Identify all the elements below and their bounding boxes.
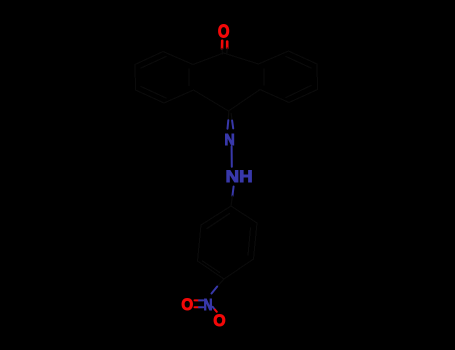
carbonyl C9=O double bond (red O-half, dark C-half) bbox=[222, 41, 227, 54]
svg-text:NH: NH bbox=[226, 167, 253, 186]
C-NO2 bond bbox=[212, 279, 225, 294]
C10=N hydrazone double bond bbox=[228, 112, 234, 129]
nitro N=O double bond bbox=[195, 300, 204, 307]
N-phenyl bond bbox=[231, 187, 234, 207]
svg-text:O: O bbox=[218, 21, 230, 41]
N-N bond bbox=[231, 147, 233, 167]
svg-text:N: N bbox=[225, 132, 235, 149]
svg-text:N: N bbox=[204, 297, 213, 314]
nitro N-O single bond bbox=[213, 307, 217, 312]
phenyl ring bbox=[198, 206, 258, 279]
svg-text:O: O bbox=[213, 311, 225, 330]
right benzo ring bbox=[259, 51, 318, 103]
left benzo ring bbox=[135, 52, 194, 104]
svg-text:O: O bbox=[181, 295, 193, 314]
anthracenone middle ring bbox=[193, 53, 260, 111]
